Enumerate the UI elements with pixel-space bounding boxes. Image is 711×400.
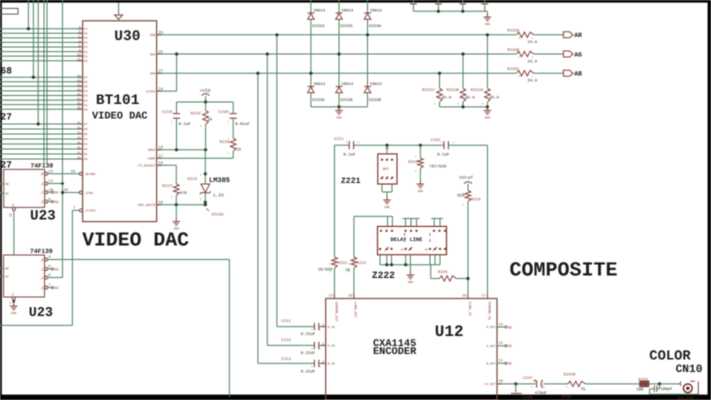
svg-text:C212: C212	[281, 338, 291, 343]
svg-text:C236: C236	[523, 396, 533, 400]
svg-text:R222: R222	[357, 261, 367, 266]
partial component box top-left	[0, 8, 18, 14]
wire R231 bottom rail	[440, 105, 490, 108]
svg-text:_3: _3	[38, 200, 43, 205]
svg-text:AB: AB	[574, 71, 582, 78]
capacitor bank cropped top	[410, 0, 488, 13]
svg-text:1N914: 1N914	[341, 82, 354, 87]
wire diode column D231	[310, 0, 312, 107]
svg-text:0.1uF: 0.1uF	[343, 153, 356, 158]
resistor R232A 24.9	[507, 29, 537, 45]
node diode-line junction	[366, 33, 369, 36]
svg-text:FS_ADJUST: FS_ADJUST	[138, 164, 155, 168]
svg-text:A3: A3	[84, 143, 88, 146]
svg-text:68: 68	[1, 66, 13, 77]
svg-text:R221: R221	[338, 261, 348, 266]
wire +VID rail	[177, 100, 234, 103]
svg-text:D232A: D232A	[341, 24, 354, 29]
svg-text:VIDEO DAC: VIDEO DAC	[92, 111, 148, 123]
svg-text:GND: GND	[485, 23, 491, 26]
svg-text:C211: C211	[281, 319, 291, 324]
node ISYNC-IOG junction	[175, 52, 178, 55]
svg-text:R_OUT: R_OUT	[486, 326, 495, 329]
svg-text:_0: _0	[38, 258, 43, 263]
U23 upper output bubbles	[45, 172, 48, 203]
svg-text:10: 10	[425, 249, 429, 252]
wire diode column D233	[367, 0, 369, 107]
wire diode column D232	[338, 0, 340, 107]
wire COMP line	[157, 157, 234, 159]
wire Z221 top stub	[385, 144, 388, 154]
ground Z221	[383, 197, 391, 210]
label CN10	[676, 364, 703, 376]
wire SYNC net U23 pin11/pin6 to U30 pin29	[48, 0, 79, 278]
svg-text:CN10: CN10	[676, 364, 703, 376]
svg-text:GND: GND	[384, 206, 390, 209]
svg-text:LUMA_IN: LUMA_IN	[467, 302, 472, 316]
svg-text:GND: GND	[336, 116, 342, 119]
svg-text:U30: U30	[114, 29, 140, 45]
resistor R234D 75	[564, 373, 640, 393]
wire R231A column	[486, 35, 488, 107]
svg-text:A5: A5	[84, 133, 88, 136]
svg-text:RCA_JACK: RCA_JACK	[678, 396, 695, 400]
svg-text:VIDEO DAC: VIDEO DAC	[82, 229, 189, 251]
svg-text:U23: U23	[30, 208, 56, 224]
diode D233A 1N914	[364, 9, 382, 30]
svg-text:1K: 1K	[207, 118, 212, 123]
ground cap bank	[484, 11, 492, 26]
svg-text:VREF: VREF	[148, 148, 156, 152]
svg-text:_1: _1	[38, 182, 43, 187]
svg-text:P3: P3	[84, 46, 88, 49]
wire FS_ADJUST to R217	[157, 165, 177, 184]
resistor R225	[431, 265, 468, 282]
U12 right NC pins	[497, 325, 512, 366]
svg-text:1N914: 1N914	[313, 9, 326, 14]
U23 lower output bubbles	[45, 258, 48, 289]
svg-text:D231A: D231A	[312, 24, 325, 29]
ground diode rail	[335, 107, 343, 120]
svg-text:NC: NC	[508, 362, 512, 367]
wire IOR line	[157, 34, 516, 36]
svg-text:G_OUT: G_OUT	[486, 345, 495, 348]
U23 upper E pin to lower	[9, 207, 16, 255]
svg-text:15: 15	[9, 213, 13, 217]
svg-text:R223: R223	[408, 160, 418, 165]
bus wires group3 A7-A0	[0, 124, 83, 159]
svg-text:E: E	[12, 293, 14, 297]
wire IOB down to C213	[258, 73, 315, 363]
resistor R231A 49.9	[471, 88, 500, 102]
svg-text:D7: D7	[84, 76, 88, 79]
wire Z221 bottom stubs	[382, 184, 392, 197]
svg-text:A4: A4	[84, 138, 88, 141]
svg-text:CV_OUT: CV_OUT	[485, 383, 496, 386]
svg-text:CHROMA_IN: CHROMA_IN	[486, 302, 491, 320]
svg-text:Z221: Z221	[341, 177, 361, 186]
node diode-line junction	[309, 72, 312, 75]
ground R223	[417, 181, 425, 194]
IC U12 CXA1145 encoder	[322, 293, 503, 400]
svg-text:C222: C222	[431, 138, 441, 143]
capacitor C222 0.1uF	[431, 138, 488, 157]
svg-text:27: 27	[1, 160, 13, 171]
svg-text:GND: GND	[174, 228, 180, 231]
port AR	[563, 32, 582, 39]
wire CV_OUT line	[497, 382, 536, 385]
svg-text:A1: A1	[5, 275, 9, 279]
svg-text:C213: C213	[281, 357, 291, 362]
svg-text:_BLANK: _BLANK	[84, 172, 96, 176]
wire vertical x33	[32, 0, 34, 77]
svg-text:1.2V: 1.2V	[213, 192, 224, 198]
wire to C236 cropped	[511, 384, 522, 394]
svg-text:A0: A0	[84, 158, 88, 161]
svg-text:R_IN: R_IN	[328, 326, 335, 329]
wire Z222 bottom stubs	[380, 255, 440, 267]
svg-text:R232A: R232A	[507, 29, 520, 34]
svg-text:D231B: D231B	[312, 98, 325, 103]
node junction	[27, 27, 30, 30]
ground R217	[173, 205, 181, 231]
resistor R216 15	[220, 138, 242, 158]
svg-text:49.9: 49.9	[465, 95, 475, 100]
wire REF_WHITE line	[157, 201, 207, 207]
svg-text:A7: A7	[84, 123, 88, 126]
svg-text:0.22uF: 0.22uF	[301, 369, 316, 374]
svg-text:24.9: 24.9	[528, 59, 538, 64]
wire to port AG	[534, 53, 564, 55]
U23 lower E pin ground	[8, 297, 17, 315]
svg-text:R234D: R234D	[564, 373, 577, 378]
capacitor C237 470uF polarized	[523, 376, 568, 396]
resistor R217 470	[162, 184, 187, 205]
svg-text:LUMA_OUT: LUMA_OUT	[353, 302, 358, 318]
svg-text:U12: U12	[435, 323, 464, 341]
U30 SYNC bubble	[79, 191, 82, 194]
svg-text:27: 27	[1, 112, 13, 123]
svg-text:13: 13	[401, 249, 405, 252]
svg-text:D215: D215	[188, 177, 198, 182]
svg-text:ENCODER: ENCODER	[373, 346, 417, 358]
wire CLOCK from U30 pin7 off-page left	[0, 210, 79, 325]
svg-text:E: E	[12, 203, 14, 207]
wire R231B column	[462, 54, 464, 107]
wire U23 pin4 to bottom edge	[48, 260, 230, 398]
svg-text:P4: P4	[84, 42, 88, 45]
svg-text:74F139: 74F139	[31, 163, 54, 170]
diode D233B 1N914	[364, 82, 382, 103]
node R231A top junction	[486, 33, 489, 36]
svg-text:D233A: D233A	[369, 24, 382, 29]
svg-text:R232C: R232C	[507, 67, 520, 72]
svg-text:1N914: 1N914	[370, 9, 383, 14]
svg-text:NC: NC	[55, 191, 59, 196]
svg-text:ISYNC: ISYNC	[146, 89, 156, 93]
svg-text:D6: D6	[84, 81, 88, 84]
svg-text:R232B: R232B	[507, 48, 520, 53]
connector CN10 RCA jack	[678, 381, 699, 400]
wire delay line top rail	[354, 216, 393, 226]
diode D232A 1N914	[336, 9, 354, 30]
svg-text:0.1uF: 0.1uF	[437, 152, 450, 157]
svg-text:BT101: BT101	[96, 93, 140, 109]
svg-text:IOG: IOG	[150, 52, 156, 56]
pin stubs maroon	[78, 29, 502, 384]
U23 upper NC pins	[48, 191, 59, 205]
svg-text:1N914: 1N914	[341, 9, 354, 14]
U30 BLANK bubble	[79, 172, 82, 175]
node IOR vert junction	[275, 33, 278, 36]
diode D232B 1N914	[336, 82, 354, 103]
svg-text:Z222: Z222	[372, 270, 395, 281]
svg-text:D2: D2	[84, 99, 88, 102]
capacitor C215 0.1uF	[162, 102, 191, 150]
wire ISYNC pin24 to IOG	[157, 54, 177, 91]
wire IOG line	[157, 53, 516, 55]
svg-text:1N914: 1N914	[370, 82, 383, 87]
svg-text:1K/820: 1K/820	[318, 268, 333, 273]
svg-text:P5: P5	[84, 37, 88, 40]
resistor R223 787/620	[408, 144, 446, 181]
wire to port AR	[534, 34, 564, 36]
svg-text:17: 17	[482, 293, 486, 298]
svg-text:GND: GND	[485, 116, 491, 119]
svg-text:D5: D5	[84, 86, 88, 89]
wire Z222 top stubs right	[431, 219, 443, 227]
bus label 27 lower	[1, 160, 13, 171]
svg-text:CHROMA_OUT: CHROMA_OUT	[333, 302, 338, 322]
bus label 68	[1, 66, 13, 77]
svg-text:_1: _1	[38, 267, 43, 272]
svg-text:B_IN: B_IN	[328, 363, 335, 366]
resistor R221 1K/820	[318, 257, 348, 299]
label COMPOSITE	[510, 259, 618, 282]
svg-text:15: 15	[236, 147, 241, 152]
svg-text:GND: GND	[408, 281, 414, 284]
pin ticks small	[171, 37, 584, 389]
svg-text:0.22uF: 0.22uF	[301, 351, 316, 356]
svg-text:1: 1	[8, 302, 12, 304]
wire vertical x44	[43, 0, 45, 164]
svg-text:100pF: 100pF	[660, 387, 673, 392]
label VIDEO DAC	[82, 229, 189, 251]
node R225 junction	[466, 277, 469, 280]
wire CHROMA_IN vertical	[487, 145, 489, 298]
wire R231C column	[439, 73, 441, 107]
svg-text:NC: NC	[55, 286, 59, 291]
port AB	[563, 70, 582, 77]
svg-text:D215A: D215A	[212, 212, 225, 217]
power +VID symbol	[199, 88, 210, 102]
svg-text:D4: D4	[84, 90, 88, 93]
svg-text:E231: E231	[638, 377, 648, 382]
svg-text:74F139: 74F139	[30, 248, 53, 255]
svg-text:787/620: 787/620	[429, 165, 446, 170]
svg-text:R231C: R231C	[422, 88, 435, 93]
svg-text:_2: _2	[38, 191, 43, 196]
svg-text:AG: AG	[574, 51, 582, 58]
svg-text:13: 13	[329, 293, 333, 298]
svg-text:100: 100	[636, 388, 644, 393]
wire Z222 top stubs mid	[403, 219, 420, 227]
resistor R231C 49.9	[422, 88, 452, 102]
svg-text:0.01uF: 0.01uF	[235, 122, 250, 127]
resistor R232C 24.9	[507, 67, 537, 84]
svg-text:49.9: 49.9	[442, 95, 452, 100]
label C236	[523, 396, 533, 400]
IC Z221 BPF	[378, 154, 397, 184]
node diode-line junction	[337, 52, 340, 55]
svg-text:GND: GND	[11, 312, 17, 315]
svg-text:_0: _0	[38, 172, 43, 177]
svg-text:D232B: D232B	[341, 98, 354, 103]
svg-text:470uF: 470uF	[535, 391, 548, 396]
node rail junction	[337, 105, 340, 108]
wire IOG down to C212	[267, 54, 314, 345]
svg-text:D0: D0	[84, 108, 88, 111]
svg-text:0.22uF: 0.22uF	[301, 332, 316, 337]
svg-text:AR: AR	[574, 32, 582, 39]
bus wires group2 D7-D0	[0, 77, 83, 109]
capacitor C211 0.22uF	[281, 319, 325, 337]
node SYNC junction	[61, 191, 64, 194]
IC U23 74F139 upper half	[4, 163, 56, 225]
svg-text:DELAY LINE: DELAY LINE	[391, 237, 423, 243]
svg-text:P7: P7	[84, 28, 88, 31]
wire to port AB	[534, 72, 564, 74]
power VAA arrow into U30 top	[115, 3, 123, 21]
node R231B top junction	[461, 52, 464, 55]
svg-text:R225: R225	[438, 270, 448, 275]
wire BLANK U23 pin12 to U30 pin10	[48, 173, 79, 175]
wire IOR down to C211	[277, 35, 315, 327]
svg-text:NC: NC	[55, 200, 59, 205]
svg-text:D233B: D233B	[369, 98, 382, 103]
U23 lower A inputs wires	[0, 268, 4, 276]
svg-text:D3: D3	[84, 95, 88, 98]
svg-text:P6: P6	[84, 33, 88, 36]
svg-text:U23: U23	[29, 306, 53, 321]
svg-text:IOR: IOR	[150, 33, 156, 37]
svg-text:20: 20	[499, 379, 503, 384]
svg-text:P1: P1	[84, 55, 88, 58]
svg-text:_2: _2	[38, 276, 43, 281]
bus label 27	[1, 112, 13, 123]
svg-text:1N914: 1N914	[313, 82, 326, 87]
wire IOB line	[157, 72, 516, 74]
svg-text:G_IN: G_IN	[328, 345, 335, 348]
label COLOR	[649, 350, 691, 365]
svg-text:REF_WHITE: REF_WHITE	[138, 203, 155, 207]
wire vertical x38	[37, 0, 39, 124]
svg-text:_3: _3	[38, 286, 43, 291]
svg-text:C237: C237	[523, 376, 533, 381]
svg-text:0.1uF: 0.1uF	[179, 122, 192, 127]
IC U23 74F139 lower half	[4, 248, 53, 321]
node IOB vert junction	[256, 72, 259, 75]
svg-text:_SYNC: _SYNC	[84, 191, 94, 195]
svg-text:16: 16	[348, 293, 352, 298]
label Z222	[372, 270, 395, 281]
power VVref symbol	[459, 175, 473, 191]
svg-text:LM385: LM385	[209, 177, 230, 185]
svg-text:A0: A0	[5, 266, 9, 270]
resistor R224 820	[457, 191, 481, 299]
svg-text:NC: NC	[508, 325, 512, 330]
svg-text:GND: GND	[418, 190, 424, 193]
svg-text:VVref: VVref	[459, 175, 473, 181]
svg-text:+VID: +VID	[199, 88, 210, 94]
svg-text:49.9: 49.9	[489, 95, 499, 100]
wire chroma line to C221	[335, 145, 350, 257]
wire diode bottom rail	[311, 106, 368, 108]
svg-text:A1: A1	[5, 191, 9, 195]
svg-text:_CLOCK: _CLOCK	[84, 209, 96, 213]
capacitor C212 0.22uF	[281, 338, 325, 356]
ground Z222	[407, 265, 415, 284]
svg-text:470: 470	[180, 191, 188, 196]
label Z221	[341, 177, 361, 186]
svg-text:24.9: 24.9	[528, 40, 538, 45]
diode D231B 1N914	[308, 82, 326, 103]
svg-text:COMPOSITE: COMPOSITE	[510, 259, 618, 282]
resistor R222 1K	[345, 216, 367, 298]
node IOG vert junction	[266, 52, 269, 55]
diode D215 LM385 1.2V	[188, 150, 231, 202]
resistor R231B 49.9	[447, 88, 476, 102]
ground R231 rail	[484, 107, 492, 120]
svg-text:P0: P0	[84, 60, 88, 63]
node junction	[37, 122, 40, 125]
wire VREF line	[157, 148, 208, 151]
svg-text:A0: A0	[5, 182, 9, 186]
svg-text:R224: R224	[471, 197, 481, 202]
ferrite bead E231 100	[636, 377, 680, 392]
svg-text:A1: A1	[84, 153, 88, 156]
resistor R232B 24.9	[507, 48, 537, 65]
capacitor 100pF shunt	[650, 384, 699, 394]
label R235 cropped	[562, 395, 572, 400]
U23 upper A inputs wires	[0, 184, 4, 193]
label D215A	[207, 209, 225, 218]
svg-text:C221: C221	[334, 137, 344, 142]
svg-text:NC: NC	[55, 267, 59, 272]
node R231C top junction	[438, 72, 441, 75]
resistor R215 1K	[191, 102, 213, 150]
svg-text:A6: A6	[84, 128, 88, 131]
IC U30 BT101 video DAC	[64, 21, 164, 222]
svg-text:R235: R235	[562, 395, 572, 400]
svg-text:B_OUT: B_OUT	[486, 362, 495, 365]
U30 CLOCK bubble	[79, 209, 82, 212]
svg-text:A2: A2	[84, 148, 88, 151]
port AG	[563, 51, 582, 58]
svg-text:IOB: IOB	[150, 72, 156, 76]
wire vertical x47	[46, 0, 48, 164]
svg-text:COMP: COMP	[148, 157, 156, 161]
U23 lower NC pins	[48, 267, 59, 291]
capacitor C213 0.22uF	[281, 357, 325, 374]
diode D231A 1N914	[308, 9, 326, 30]
IC Z222 DELAY LINE	[378, 226, 447, 254]
svg-text:P2: P2	[84, 51, 88, 54]
node junction	[32, 76, 35, 79]
svg-text:NC: NC	[508, 344, 512, 349]
svg-text:BPF: BPF	[383, 167, 389, 172]
svg-text:D1: D1	[84, 104, 88, 107]
